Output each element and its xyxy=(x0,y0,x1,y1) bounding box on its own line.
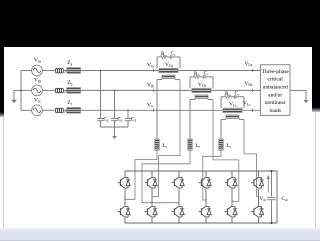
svg-text:Vtc: Vtc xyxy=(147,102,154,108)
svg-text:Vsc: Vsc xyxy=(34,97,41,103)
svg-text:Zb: Zb xyxy=(67,80,72,86)
svg-text:Rc: Rc xyxy=(225,91,231,97)
svg-text:Zc: Zc xyxy=(67,100,72,106)
svg-text:Vta: Vta xyxy=(147,63,154,69)
svg-text:VLb: VLb xyxy=(244,81,252,87)
svg-text:Vsa: Vsa xyxy=(34,58,41,64)
svg-text:VCa: VCa xyxy=(165,62,173,68)
svg-text:Cc: Cc xyxy=(204,71,210,77)
svg-text:Vsb: Vsb xyxy=(34,77,41,83)
svg-text:Cc: Cc xyxy=(235,90,241,96)
svg-text:VCb: VCb xyxy=(198,82,206,88)
svg-text:VLa: VLa xyxy=(244,61,252,67)
svg-text:Cf: Cf xyxy=(117,117,123,123)
svg-text:critical: critical xyxy=(268,77,284,83)
svg-text:Cc: Cc xyxy=(171,51,177,57)
svg-text:Lr: Lr xyxy=(195,143,200,149)
svg-text:Vdc: Vdc xyxy=(259,196,267,202)
svg-text:Cf: Cf xyxy=(131,117,137,123)
svg-text:Cdc: Cdc xyxy=(281,196,288,202)
svg-text:Lr: Lr xyxy=(162,143,167,149)
svg-text:Lr: Lr xyxy=(226,143,231,149)
svg-text:Vtb: Vtb xyxy=(147,82,154,88)
svg-text:unbalanced: unbalanced xyxy=(263,85,288,91)
svg-text:Rc: Rc xyxy=(161,51,167,57)
svg-text:VCc: VCc xyxy=(229,102,237,108)
svg-text:Cf: Cf xyxy=(103,117,109,123)
svg-text:loads: loads xyxy=(269,108,281,114)
svg-text:VLc: VLc xyxy=(243,101,251,107)
svg-text:nonlinear: nonlinear xyxy=(265,100,286,106)
svg-text:Three-phase: Three-phase xyxy=(262,69,290,75)
svg-text:and/or: and/or xyxy=(268,92,282,98)
svg-text:Rc: Rc xyxy=(194,71,200,77)
svg-text:Za: Za xyxy=(67,60,72,66)
